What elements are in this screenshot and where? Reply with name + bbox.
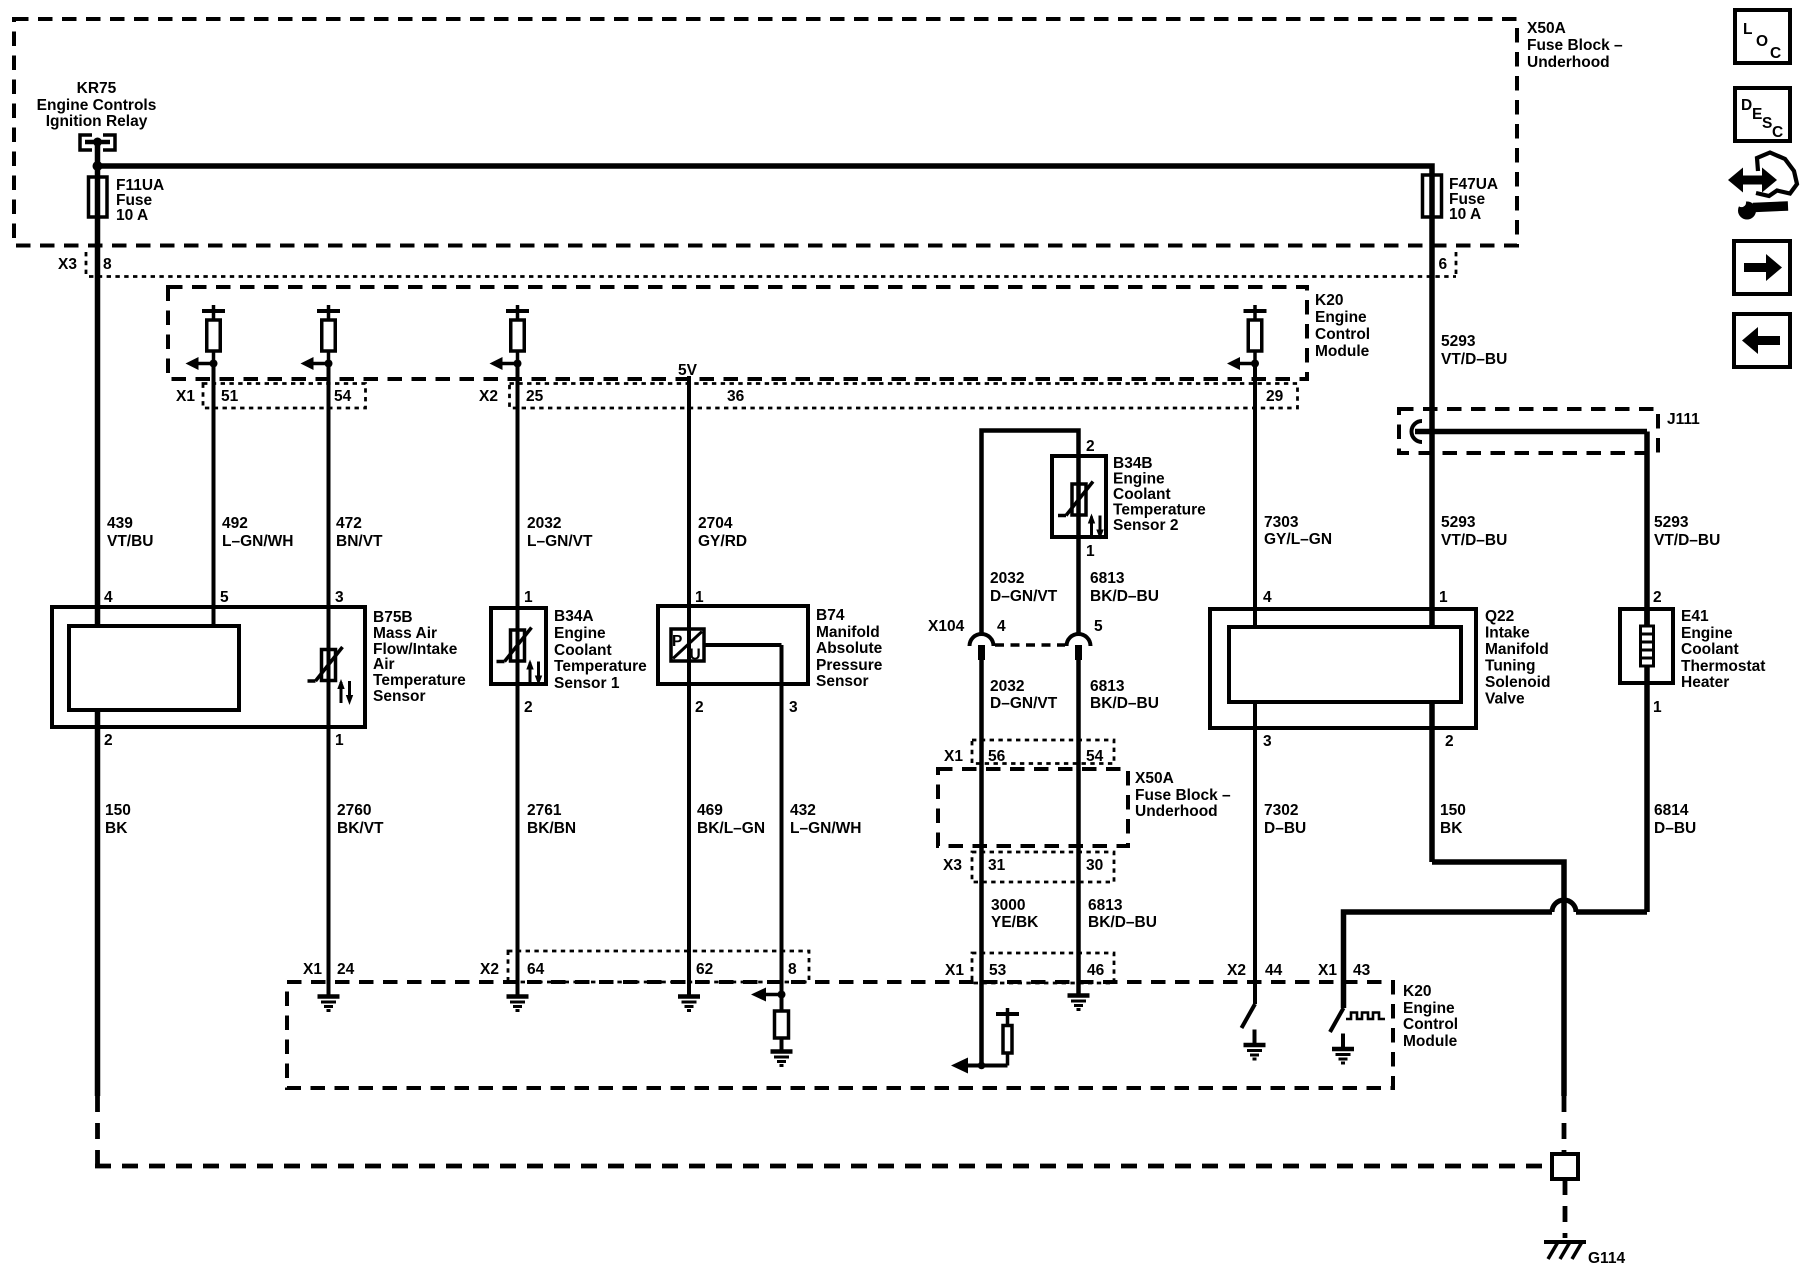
svg-text:Temperature: Temperature (554, 658, 647, 675)
svg-text:46: 46 (1087, 962, 1105, 979)
svg-text:Coolant: Coolant (1681, 641, 1739, 658)
svg-text:B34B: B34B (1113, 455, 1153, 472)
svg-text:5293: 5293 (1654, 514, 1689, 531)
svg-text:3: 3 (789, 699, 798, 716)
svg-text:3000: 3000 (991, 897, 1025, 914)
svg-text:X3: X3 (943, 857, 962, 874)
svg-text:Control: Control (1403, 1016, 1458, 1033)
svg-text:X1: X1 (303, 961, 322, 978)
svg-text:D–GN/VT: D–GN/VT (990, 695, 1058, 712)
svg-text:1: 1 (1439, 589, 1448, 606)
svg-text:Absolute: Absolute (816, 640, 883, 657)
svg-text:44: 44 (1265, 962, 1283, 979)
svg-text:Sensor: Sensor (373, 688, 426, 705)
svg-text:2032: 2032 (990, 678, 1024, 695)
svg-text:36: 36 (727, 388, 745, 405)
svg-text:472: 472 (336, 515, 362, 532)
svg-text:43: 43 (1353, 962, 1371, 979)
svg-text:54: 54 (1086, 748, 1104, 765)
svg-text:L: L (1743, 21, 1752, 38)
svg-text:8: 8 (103, 256, 112, 273)
svg-text:B75B: B75B (373, 609, 413, 626)
svg-text:KR75: KR75 (77, 80, 117, 97)
svg-text:X1: X1 (1318, 962, 1337, 979)
svg-text:U: U (690, 647, 701, 664)
svg-text:2: 2 (524, 699, 533, 716)
svg-text:Manifold: Manifold (1485, 641, 1549, 658)
svg-text:31: 31 (988, 857, 1006, 874)
svg-text:8: 8 (788, 961, 797, 978)
svg-text:Sensor: Sensor (816, 673, 869, 690)
svg-text:L–GN/WH: L–GN/WH (790, 820, 861, 837)
svg-text:BK/VT: BK/VT (337, 820, 384, 837)
svg-text:Engine: Engine (1681, 625, 1733, 642)
svg-text:Control: Control (1315, 326, 1370, 343)
svg-text:Underhood: Underhood (1527, 54, 1610, 71)
svg-text:BK/D–BU: BK/D–BU (1088, 914, 1157, 931)
svg-text:D–BU: D–BU (1264, 820, 1306, 837)
svg-text:X1: X1 (176, 388, 195, 405)
svg-text:J111: J111 (1667, 411, 1700, 428)
svg-text:5: 5 (1094, 618, 1103, 635)
svg-text:2: 2 (104, 732, 113, 749)
svg-text:B34A: B34A (554, 608, 594, 625)
svg-text:G114: G114 (1588, 1250, 1625, 1267)
svg-text:Manifold: Manifold (816, 624, 880, 641)
svg-text:Heater: Heater (1681, 674, 1729, 691)
svg-text:6: 6 (1439, 256, 1448, 273)
svg-text:X1: X1 (944, 748, 963, 765)
svg-text:53: 53 (989, 962, 1007, 979)
svg-text:E: E (1752, 106, 1762, 123)
svg-text:4: 4 (104, 589, 113, 606)
svg-text:1: 1 (524, 589, 533, 606)
svg-text:Sensor 2: Sensor 2 (1113, 517, 1178, 534)
svg-text:BK/L–GN: BK/L–GN (697, 820, 765, 837)
svg-text:Engine: Engine (1403, 1000, 1455, 1017)
svg-text:K20: K20 (1315, 292, 1343, 309)
svg-text:X2: X2 (480, 961, 499, 978)
svg-text:5: 5 (220, 589, 229, 606)
svg-text:439: 439 (107, 515, 133, 532)
svg-text:2032: 2032 (527, 515, 561, 532)
svg-text:56: 56 (988, 748, 1006, 765)
svg-text:D–BU: D–BU (1654, 820, 1696, 837)
svg-text:Sensor 1: Sensor 1 (554, 675, 620, 692)
svg-text:30: 30 (1086, 857, 1103, 874)
svg-text:D: D (1741, 97, 1752, 114)
svg-text:VT/D–BU: VT/D–BU (1441, 532, 1507, 549)
svg-text:2: 2 (1653, 589, 1662, 606)
svg-text:1: 1 (1086, 543, 1095, 560)
svg-text:Tuning: Tuning (1485, 658, 1536, 675)
svg-text:150: 150 (105, 802, 131, 819)
svg-text:2: 2 (1445, 733, 1454, 750)
svg-text:2: 2 (695, 699, 704, 716)
svg-text:D–GN/VT: D–GN/VT (990, 588, 1058, 605)
svg-text:10 A: 10 A (116, 207, 148, 224)
svg-text:492: 492 (222, 515, 248, 532)
svg-text:GY/RD: GY/RD (698, 533, 747, 550)
svg-text:5293: 5293 (1441, 333, 1476, 350)
svg-text:Intake: Intake (1485, 625, 1530, 642)
svg-text:Engine: Engine (554, 625, 606, 642)
svg-text:C: C (1772, 124, 1783, 141)
svg-text:X2: X2 (1227, 962, 1246, 979)
svg-text:Coolant: Coolant (554, 642, 612, 659)
svg-text:Pressure: Pressure (816, 657, 883, 674)
svg-text:Q22: Q22 (1485, 608, 1514, 625)
svg-text:VT/D–BU: VT/D–BU (1441, 351, 1507, 368)
svg-text:X2: X2 (479, 388, 498, 405)
svg-text:51: 51 (221, 388, 239, 405)
svg-text:X104: X104 (928, 618, 965, 635)
svg-text:4: 4 (1263, 589, 1272, 606)
svg-text:Thermostat: Thermostat (1681, 658, 1765, 675)
svg-text:2761: 2761 (527, 802, 562, 819)
svg-text:O: O (1756, 33, 1768, 50)
svg-text:X3: X3 (58, 256, 77, 273)
svg-text:1: 1 (335, 732, 344, 749)
svg-text:X1: X1 (945, 962, 964, 979)
svg-text:VT/BU: VT/BU (107, 533, 154, 550)
svg-text:64: 64 (527, 961, 545, 978)
svg-text:29: 29 (1266, 388, 1284, 405)
svg-text:L–GN/VT: L–GN/VT (527, 533, 593, 550)
svg-text:BK/D–BU: BK/D–BU (1090, 588, 1159, 605)
svg-text:Coolant: Coolant (1113, 486, 1171, 503)
svg-text:Module: Module (1315, 343, 1370, 360)
svg-text:5293: 5293 (1441, 514, 1476, 531)
svg-text:YE/BK: YE/BK (991, 914, 1039, 931)
svg-text:6814: 6814 (1654, 802, 1689, 819)
svg-text:C: C (1770, 45, 1781, 62)
svg-text:6813: 6813 (1088, 897, 1123, 914)
svg-text:Fuse Block –: Fuse Block – (1527, 37, 1623, 54)
svg-text:BN/VT: BN/VT (336, 533, 383, 550)
svg-text:E41: E41 (1681, 608, 1709, 625)
svg-text:Ignition Relay: Ignition Relay (46, 113, 148, 130)
svg-text:L–GN/WH: L–GN/WH (222, 533, 293, 550)
svg-text:54: 54 (334, 388, 352, 405)
svg-text:Temperature: Temperature (373, 672, 466, 689)
svg-text:432: 432 (790, 802, 816, 819)
svg-text:BK/D–BU: BK/D–BU (1090, 695, 1159, 712)
svg-text:6813: 6813 (1090, 678, 1125, 695)
svg-text:Valve: Valve (1485, 691, 1525, 708)
svg-text:1: 1 (1653, 699, 1662, 716)
svg-text:S: S (1762, 115, 1772, 132)
svg-text:3: 3 (1263, 733, 1272, 750)
svg-text:Engine Controls: Engine Controls (37, 97, 157, 114)
svg-text:Engine: Engine (1315, 309, 1367, 326)
svg-text:1: 1 (695, 589, 704, 606)
svg-text:BK: BK (105, 820, 128, 837)
svg-text:Solenoid: Solenoid (1485, 674, 1550, 691)
svg-text:K20: K20 (1403, 983, 1431, 1000)
svg-text:150: 150 (1440, 802, 1466, 819)
svg-text:X50A: X50A (1527, 20, 1566, 37)
svg-text:7302: 7302 (1264, 802, 1298, 819)
svg-text:7303: 7303 (1264, 514, 1299, 531)
svg-text:X50A: X50A (1135, 770, 1174, 787)
svg-text:2760: 2760 (337, 802, 371, 819)
svg-text:62: 62 (696, 961, 713, 978)
svg-text:Engine: Engine (1113, 471, 1165, 488)
svg-text:Mass Air: Mass Air (373, 625, 437, 642)
svg-text:P: P (672, 633, 682, 650)
svg-text:BK/BN: BK/BN (527, 820, 576, 837)
svg-text:25: 25 (526, 388, 544, 405)
svg-text:2704: 2704 (698, 515, 733, 532)
svg-text:VT/D–BU: VT/D–BU (1654, 532, 1720, 549)
svg-text:2: 2 (1086, 438, 1095, 455)
svg-text:4: 4 (997, 618, 1006, 635)
svg-text:Module: Module (1403, 1033, 1458, 1050)
svg-text:24: 24 (337, 961, 355, 978)
svg-text:Underhood: Underhood (1135, 803, 1218, 820)
svg-text:Fuse Block –: Fuse Block – (1135, 787, 1231, 804)
svg-text:Temperature: Temperature (1113, 502, 1206, 519)
svg-text:B74: B74 (816, 607, 845, 624)
svg-text:Air: Air (373, 656, 395, 673)
svg-text:469: 469 (697, 802, 723, 819)
svg-text:10 A: 10 A (1449, 206, 1481, 223)
svg-text:6813: 6813 (1090, 570, 1125, 587)
svg-text:3: 3 (335, 589, 344, 606)
svg-text:2032: 2032 (990, 570, 1024, 587)
svg-text:GY/L–GN: GY/L–GN (1264, 531, 1332, 548)
svg-text:BK: BK (1440, 820, 1463, 837)
